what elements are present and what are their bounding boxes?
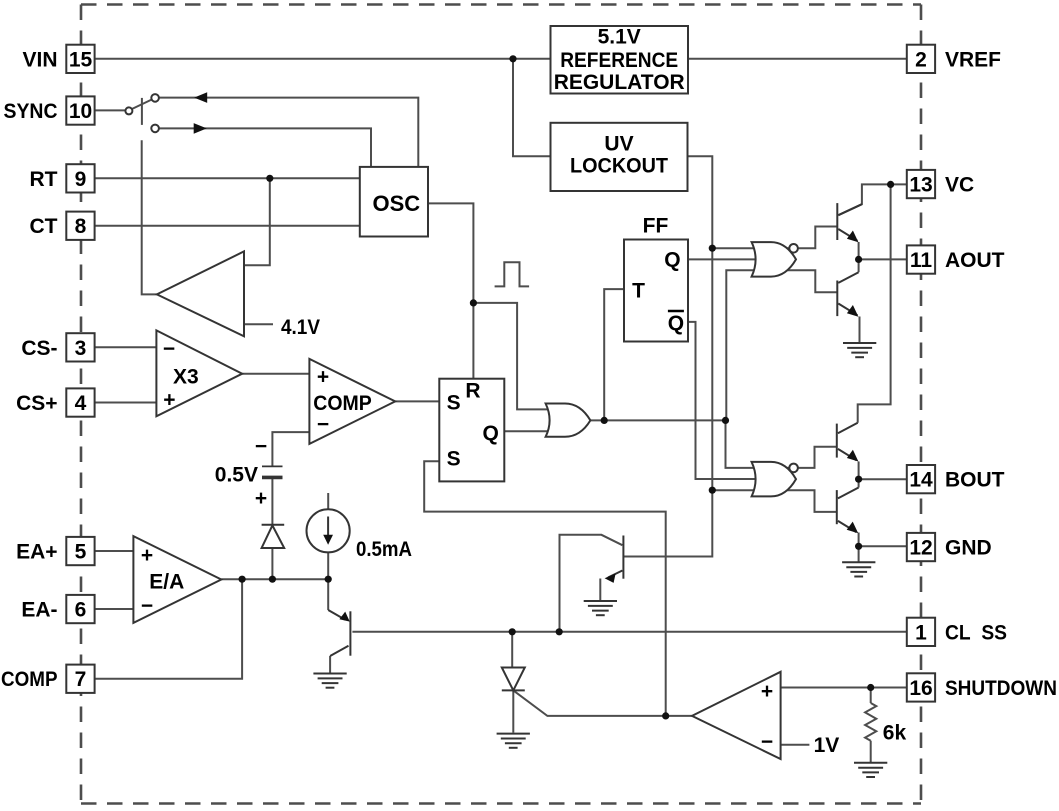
wire RT pin9 to OSC (95, 177, 360, 179)
wire Q4 collector to BOUT node (858, 479, 860, 487)
wire EA- pin6 to E/A (95, 608, 134, 610)
clock pulse symbol (495, 262, 529, 286)
svg-text:COMP: COMP (1, 668, 58, 691)
node E/A output diode (269, 576, 276, 583)
wire GND node to pin12 (859, 545, 907, 547)
wire shutdown transistor collector to CL line (560, 535, 623, 632)
svg-text:4: 4 (75, 392, 87, 415)
transistor Q2 AOUT bottom (837, 272, 858, 316)
svg-text:RT: RT (30, 168, 58, 191)
wire RT node to 4.1V comparator input (244, 178, 270, 265)
wire CL SS line to pin1 (352, 631, 906, 633)
wire CT pin8 to OSC (95, 225, 360, 227)
svg-text:+: + (317, 365, 329, 388)
pin box 2 VREF (907, 45, 935, 73)
node CL diode (509, 628, 516, 635)
svg-text:COMP: COMP (313, 392, 372, 415)
pin box 8 CT (66, 212, 94, 240)
svg-text:Q: Q (483, 422, 499, 445)
svg-text:S: S (447, 448, 461, 471)
wire reference regulator to pin2 VREF (688, 58, 907, 60)
wire COMP output to latch S input (395, 400, 439, 402)
comparator 4.1V triangle (157, 251, 244, 336)
svg-text:X3: X3 (173, 365, 199, 388)
block S-R latch (439, 379, 504, 482)
svg-text:10: 10 (69, 100, 92, 123)
pin box 16 SHUTDOWN (907, 673, 935, 701)
wire resistor top stub (870, 688, 872, 704)
transistor Q3 BOUT top (837, 423, 858, 461)
amplifier E/A triangle (133, 536, 221, 623)
svg-text:OSC: OSC (372, 191, 420, 216)
node RT (266, 175, 273, 182)
wire EA+ pin5 to E/A (95, 550, 134, 552)
svg-text:13: 13 (909, 174, 932, 197)
nor gate B bubble (789, 464, 798, 473)
svg-text:+: + (141, 544, 153, 567)
wire latch Q output to OR gate (504, 430, 560, 432)
wire shutdown comparator minus input 1V (781, 744, 810, 746)
pin box 9 RT (66, 164, 94, 192)
or gate (latch output) (546, 404, 591, 437)
arrow left on upper sync line (194, 92, 207, 103)
ground Q4 emitter (842, 562, 875, 576)
svg-text:5.1V: 5.1V (598, 26, 641, 49)
wire sync upper line to OSC (159, 98, 418, 167)
battery 0.5V negative plate (262, 465, 283, 467)
wire SYNC pin10 to switch pole (95, 109, 126, 111)
svg-text:12: 12 (909, 537, 932, 560)
ground PNP collector (313, 674, 346, 688)
node AOUT (855, 256, 862, 263)
node UV at NOR A input (709, 245, 716, 252)
block UV lockout (551, 123, 688, 191)
wire AOUT node to pin11 (859, 258, 907, 260)
wire FF Q to NOR A (688, 258, 780, 260)
dashed border left (80, 5, 83, 804)
wire VIN node down to UV lockout (513, 59, 551, 156)
svg-text:UV: UV (604, 132, 633, 155)
wire BOUT node to pin14 (859, 478, 907, 480)
pin box 5 EA+ (66, 537, 94, 565)
transistor PNP CL clamp (328, 610, 350, 656)
pin box 7 COMP (66, 665, 94, 693)
switch lower throw contact (151, 125, 159, 133)
nor gate A (AOUT drive) (752, 242, 796, 277)
svg-text:BOUT: BOUT (945, 469, 1005, 492)
node SHUTDOWN pin (867, 684, 874, 691)
wire PNP collector to ground (329, 656, 331, 673)
wire E/A output line (221, 578, 328, 580)
wire VC rail down to Q3 collector (858, 184, 891, 422)
svg-text:GND: GND (945, 537, 992, 560)
wire CL diode anode drop (511, 632, 513, 668)
svg-text:Q: Q (668, 312, 684, 335)
wire shutdown comparator plus input to pin16 (781, 687, 907, 689)
svg-text:4.1V: 4.1V (281, 316, 320, 339)
wire clock branch to OR gate (473, 303, 560, 410)
wire UV net to NOR B lower input and bracket (712, 490, 837, 512)
diode CL shutdown (502, 668, 525, 691)
wire latch lower S input net (424, 461, 666, 716)
comparator COMP triangle (309, 359, 395, 444)
wire diode to E/A output node (271, 548, 273, 579)
nor gate B (BOUT drive) (752, 462, 796, 497)
block FF toggle flip-flop (624, 240, 688, 342)
svg-text:EA+: EA+ (16, 541, 57, 564)
resistor 6k zigzag (865, 703, 876, 741)
wire Q3 emitter to BOUT node (858, 462, 860, 480)
pin box 1 CL SS (907, 618, 935, 646)
dashed border bottom (81, 802, 921, 805)
wire shutdown transistor emitter to ground (599, 579, 601, 601)
wire COMP inverting input to 0.5V battery (272, 432, 309, 466)
node UV at NOR B input (709, 487, 716, 494)
svg-text:0.5V: 0.5V (215, 464, 258, 487)
svg-text:−: − (317, 413, 329, 436)
svg-text:Q: Q (664, 248, 680, 271)
pin box 13 VC (907, 170, 935, 198)
svg-text:EA-: EA- (21, 599, 57, 622)
wire 4.1V comparator output up (142, 140, 157, 294)
wire OR output to NOR A lower input (726, 270, 837, 420)
wire OSC clock output to latch R input (428, 203, 473, 378)
wire battery to diode (271, 477, 273, 524)
wire switch bar (141, 98, 143, 125)
svg-text:AOUT: AOUT (945, 249, 1005, 272)
battery 0.5V positive plate (262, 476, 283, 480)
svg-text:CL SS: CL SS (945, 621, 1007, 644)
node OR output right (722, 417, 729, 424)
arrow right on lower sync line (194, 123, 207, 134)
svg-text:E/A: E/A (149, 571, 184, 594)
svg-text:16: 16 (909, 677, 932, 700)
wire GND node to ground symbol (858, 546, 860, 562)
svg-text:−: − (255, 435, 267, 458)
svg-text:S: S (447, 392, 461, 415)
svg-text:2: 2 (915, 48, 927, 71)
amplifier X3 triangle (156, 330, 242, 416)
pin box 12 GND (907, 533, 935, 561)
wire diode to shutdown comparator output (513, 690, 692, 716)
dashed border right (920, 5, 923, 804)
wire current source to E/A output node (327, 552, 329, 579)
node CL transistor collector (556, 628, 563, 635)
current source 0.5mA circle (307, 509, 350, 552)
wire Q1 emitter to AOUT node (858, 242, 860, 259)
ground shutdown transistor (584, 601, 617, 615)
svg-text:VREF: VREF (945, 48, 1001, 71)
node E/A output current source (325, 576, 332, 583)
pin box 11 AOUT (907, 245, 935, 273)
svg-text:REFERENCE: REFERENCE (560, 49, 678, 72)
wire CS- pin3 to X3 (95, 346, 157, 348)
svg-text:14: 14 (909, 469, 933, 492)
switch pole contact (125, 107, 132, 114)
node E/A output feedback (239, 576, 246, 583)
current source arrow (327, 517, 329, 537)
wire resistor bottom to ground (870, 741, 872, 762)
node VIN/reference (509, 55, 516, 62)
wire OR output to FF T input (604, 289, 624, 420)
wire UV lockout output net down to shutdown transistor base (623, 156, 712, 556)
node clock (470, 299, 477, 306)
svg-text:8: 8 (75, 215, 87, 238)
svg-text:T: T (632, 279, 645, 302)
wire X3 output to COMP comparator (242, 373, 309, 375)
svg-text:SYNC: SYNC (4, 100, 58, 123)
svg-text:−: − (141, 595, 153, 618)
switch upper throw contact (151, 94, 159, 102)
pin box 15 VIN (66, 45, 94, 73)
svg-text:+: + (255, 487, 267, 510)
svg-text:CT: CT (30, 215, 58, 238)
svg-text:+: + (163, 389, 175, 412)
svg-text:6: 6 (75, 599, 87, 622)
wire VC node to pin13 (891, 183, 907, 185)
diode clamp at E/A output (262, 525, 285, 548)
wire switch blade (132, 100, 152, 110)
pin box 4 CS+ (66, 388, 94, 416)
svg-text:3: 3 (75, 337, 87, 360)
wire 4.1V reference stub (244, 323, 273, 325)
pin box 6 EA- (66, 595, 94, 623)
svg-text:LOCKOUT: LOCKOUT (570, 154, 668, 177)
svg-text:R: R (465, 380, 480, 403)
wire PNP emitter from E/A node (327, 579, 329, 610)
svg-text:CS+: CS+ (16, 392, 57, 415)
ground CL diode (497, 734, 530, 748)
wire Q2 emitter to ground (859, 317, 861, 343)
nor gate A bubble (789, 244, 798, 253)
pin box 10 SYNC (66, 96, 94, 124)
dashed border top (81, 3, 921, 6)
wire CL diode cathode to ground (512, 690, 514, 732)
node BOUT (855, 476, 862, 483)
svg-text:1: 1 (915, 621, 927, 644)
wire COMP pin7 feedback to E/A output (95, 579, 243, 679)
wire sync lower line to OSC (159, 128, 371, 167)
node OR output T (601, 417, 608, 424)
node GND (855, 543, 862, 550)
wire OR gate output (590, 419, 725, 421)
svg-text:REGULATOR: REGULATOR (554, 71, 685, 94)
svg-text:−: − (163, 337, 175, 360)
transistor Q1 AOUT top (837, 203, 862, 241)
svg-text:7: 7 (75, 668, 87, 691)
svg-text:CS-: CS- (21, 337, 57, 360)
comparator shutdown triangle (692, 672, 781, 759)
svg-text:1V: 1V (814, 734, 840, 757)
svg-text:0.5mA: 0.5mA (356, 538, 412, 561)
svg-text:VIN: VIN (22, 48, 57, 71)
node shutdown comparator output (662, 712, 669, 719)
node VC (887, 181, 894, 188)
wire current source stub (327, 493, 329, 509)
svg-text:11: 11 (910, 249, 933, 272)
wire UV net to NOR A upper input and output bracket (712, 227, 837, 249)
block 5.1V reference regulator (551, 26, 689, 94)
block OSC (360, 167, 428, 237)
wire Q4 emitter to GND node (858, 533, 860, 547)
wire CS+ pin4 to X3 (95, 402, 157, 404)
svg-text:SHUTDOWN: SHUTDOWN (945, 677, 1057, 700)
svg-text:+: + (761, 680, 773, 703)
wire Q2 collector to AOUT node (858, 259, 860, 272)
ground Q2 emitter (843, 343, 876, 357)
svg-text:5: 5 (75, 541, 87, 564)
wire OR output to NOR B upper input (726, 420, 837, 468)
svg-text:6k: 6k (883, 721, 907, 744)
ground 6k resistor (854, 763, 887, 777)
svg-text:15: 15 (69, 48, 93, 71)
pin box 3 CS- (66, 333, 94, 361)
wire FF Qbar to NOR B (688, 322, 780, 479)
svg-text:9: 9 (75, 168, 87, 191)
wire VIN pin15 to reference regulator (95, 58, 551, 60)
pin box 14 BOUT (907, 465, 935, 493)
transistor shutdown NPN (608, 536, 623, 579)
transistor Q4 BOUT bottom (837, 488, 859, 533)
svg-text:VC: VC (945, 174, 974, 197)
svg-text:−: − (761, 730, 773, 753)
wire Q1 collector to VC (838, 184, 890, 215)
svg-text:FF: FF (643, 214, 669, 237)
